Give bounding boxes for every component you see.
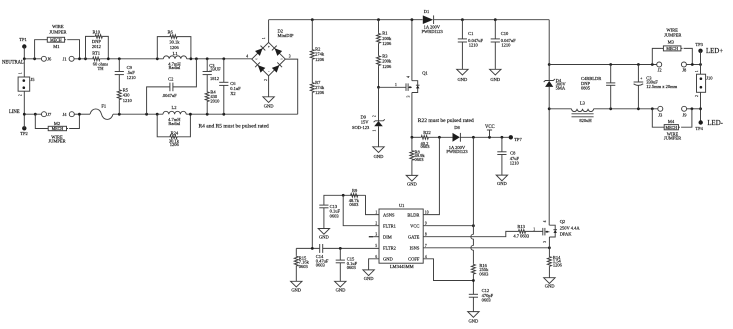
wire LINE rail left segment: [24, 113, 41, 115]
thermistor RT1 60 ohms TH: [92, 51, 108, 72]
svg-text:200k: 200k: [382, 36, 392, 41]
wire R9 to ASNS pin 1: [366, 195, 380, 214]
connector J9: [682, 106, 688, 117]
svg-text:430: 430: [123, 93, 131, 98]
ground below bridge: [263, 97, 274, 109]
svg-text:8: 8: [425, 233, 427, 237]
bridge diode top-left: [255, 46, 265, 56]
svg-text:J1: J1: [63, 56, 67, 61]
svg-text:1206: 1206: [170, 142, 180, 147]
svg-text:9: 9: [425, 222, 427, 226]
resistor R5 430 1210: [117, 88, 132, 115]
connector J5: [18, 59, 35, 114]
capacitor C12 470pF 0603: [469, 288, 494, 311]
svg-text:2: 2: [372, 115, 376, 117]
resistor R13 4.7 0603: [513, 224, 535, 239]
fuse F1: [90, 104, 113, 120]
svg-text:J2: J2: [658, 68, 662, 73]
ground below C10: [490, 69, 501, 82]
svg-text:SOD-123: SOD-123: [352, 125, 370, 130]
svg-text:TP1: TP1: [19, 37, 27, 42]
wire R3 to Q1 gate node: [378, 66, 380, 87]
svg-text:1: 1: [372, 129, 376, 131]
svg-text:C10: C10: [501, 31, 509, 36]
svg-text:1: 1: [262, 37, 266, 39]
svg-text:DIM: DIM: [383, 234, 392, 239]
wire gate node to Q1: [379, 86, 407, 88]
svg-text:FLTR2: FLTR2: [383, 246, 396, 251]
svg-text:M3: M3: [668, 40, 675, 45]
svg-text:GND: GND: [291, 288, 301, 293]
svg-text:TP7: TP7: [514, 137, 522, 142]
svg-text:WIRE: WIRE: [52, 24, 64, 29]
wire LED+ rail: [549, 64, 657, 66]
svg-text:820uH: 820uH: [579, 118, 592, 123]
wire bridge pin2 to ground: [268, 76, 270, 97]
wire GATE pin 8 to R13: [423, 231, 518, 236]
connector J10: [695, 70, 713, 97]
svg-text:Q2: Q2: [560, 219, 566, 224]
wire LINE rail to TP2: [23, 114, 25, 128]
svg-text:TP4: TP4: [695, 126, 703, 131]
svg-text:2: 2: [375, 222, 377, 226]
capacitor C6 0.1uF X2: [219, 59, 241, 114]
capacitor C9 .5uF 1210: [115, 59, 137, 90]
wire rail RT1 to L1 section: [100, 58, 163, 60]
svg-text:4: 4: [543, 220, 547, 222]
svg-text:6: 6: [375, 255, 377, 259]
svg-text:2: 2: [18, 94, 22, 96]
svg-text:0603: 0603: [415, 157, 425, 162]
svg-text:+: +: [640, 77, 642, 81]
test point TP3 / LED+: [695, 42, 723, 55]
wire J4 to fuse: [74, 113, 90, 115]
wire FLTR2 net: [296, 247, 319, 249]
svg-text:NEUTRAL: NEUTRAL: [2, 60, 24, 65]
svg-text:0603: 0603: [347, 265, 357, 270]
wire J10 to TP4: [700, 92, 702, 122]
wire jumper M2 MECH: [35, 114, 79, 143]
capacitor C3 330uF electrolytic: [634, 65, 678, 109]
svg-text:R22 must be pulsed rated: R22 must be pulsed rated: [418, 118, 474, 124]
svg-text:0603: 0603: [349, 202, 359, 207]
capacitor C3 .33UF 1812: [203, 59, 222, 92]
wire Q2 source down to R14: [548, 237, 550, 256]
capacitor C8 47uF 1210: [497, 137, 519, 175]
svg-text:10: 10: [425, 211, 429, 215]
svg-text:X2: X2: [230, 91, 236, 96]
svg-text:DPAK: DPAK: [560, 232, 573, 237]
svg-text:M4: M4: [668, 119, 675, 124]
connector J6: [41, 56, 52, 61]
svg-text:1210: 1210: [501, 43, 511, 48]
connector J8: [681, 62, 687, 73]
wire rail J1 to RT1: [74, 58, 92, 60]
svg-text:GND: GND: [497, 181, 507, 186]
svg-text:2012: 2012: [92, 44, 101, 49]
svg-text:C2: C2: [168, 77, 173, 82]
wire VCC vertical down to R16 with hops: [471, 137, 474, 263]
wire R13 to Q2 gate: [526, 230, 543, 232]
svg-text:1: 1: [533, 227, 535, 231]
svg-text:1206: 1206: [382, 64, 392, 69]
wire ISNS pin 7 to Q2 source: [423, 247, 549, 249]
svg-text:L1: L1: [173, 51, 178, 56]
svg-text:0603: 0603: [299, 264, 309, 269]
svg-text:+: +: [268, 45, 270, 49]
diode D1 1A 200V PWRDI123: [422, 9, 444, 34]
svg-text:2: 2: [695, 95, 699, 97]
inductor L1 4.7mH Radial: [163, 51, 186, 70]
wire LED- rail left: [549, 108, 571, 110]
svg-text:1812: 1812: [210, 76, 219, 81]
ground below U1 pin 6: [363, 270, 374, 281]
bridge diode bottom-right: [272, 62, 282, 72]
svg-text:MECH: MECH: [666, 125, 678, 130]
svg-text:MiniDIP: MiniDIP: [278, 33, 295, 38]
svg-text:1206: 1206: [170, 45, 180, 50]
svg-text:15V: 15V: [361, 120, 370, 125]
svg-text:274k: 274k: [315, 52, 325, 57]
svg-text:PWRDI123: PWRDI123: [422, 29, 444, 34]
svg-text:4: 4: [406, 76, 410, 78]
capacitor C15 0.1uF 0603: [336, 248, 358, 281]
test point TP2: [20, 126, 28, 136]
svg-text:5MA: 5MA: [556, 85, 566, 90]
resistor R1 200k 1206: [377, 20, 392, 46]
svg-text:274k: 274k: [315, 85, 325, 90]
svg-text:2010: 2010: [210, 98, 220, 103]
svg-text:J10: J10: [706, 75, 713, 80]
resistor R15 7.16k 0603: [294, 248, 309, 281]
diode D8 1A 200V PWRDI123: [446, 125, 468, 154]
svg-text:R6: R6: [167, 29, 173, 34]
svg-text:LINE: LINE: [9, 110, 20, 115]
svg-text:4.7 0603: 4.7 0603: [513, 233, 530, 238]
wire bridge output to top rail: [268, 20, 270, 43]
svg-text:Q1: Q1: [422, 71, 428, 76]
wire VCC rail left (Q1 source node): [412, 136, 421, 138]
svg-text:TP2: TP2: [20, 131, 28, 136]
capacitor C13 0.1uF 0603: [319, 204, 340, 229]
transistor Q1: [406, 20, 428, 138]
svg-text:1206: 1206: [382, 41, 392, 46]
test point TP4 / LED-: [695, 120, 723, 131]
svg-text:GND: GND: [383, 257, 393, 262]
svg-text:R10: R10: [93, 30, 101, 35]
svg-text:MECH: MECH: [52, 126, 64, 131]
wire COFF pin 4 to C12 node: [423, 259, 473, 281]
test point TP1: [19, 37, 27, 49]
svg-text:5: 5: [375, 244, 377, 248]
inductor L2 4.7mH Radial: [163, 105, 186, 126]
wire R22 to D8: [429, 136, 453, 138]
svg-text:0603: 0603: [482, 298, 492, 303]
ground below C13: [318, 229, 329, 240]
power symbol VCC: [485, 125, 495, 137]
capacitor C2 .0047uF (line to neutral): [147, 59, 197, 114]
resistor R16 255k 0603: [471, 263, 489, 294]
svg-text:0603: 0603: [421, 144, 431, 149]
resistor R22 40.2 0603: [421, 130, 431, 149]
svg-text:7: 7: [425, 244, 427, 248]
svg-text:1: 1: [695, 70, 699, 72]
svg-text:0805: 0805: [581, 86, 591, 91]
svg-text:GND: GND: [490, 77, 500, 82]
svg-text:M1: M1: [53, 44, 59, 49]
wire LINE rail fuse to L2: [113, 113, 163, 115]
svg-text:~: ~: [281, 58, 283, 62]
wire top rectified rail: [269, 19, 423, 21]
resistor R9 48.7k 0603: [349, 188, 360, 207]
wire J8 to TP3 column: [686, 64, 700, 66]
ground below C12: [468, 312, 479, 324]
ground below D9: [373, 147, 384, 159]
svg-text:VCC: VCC: [485, 125, 495, 130]
connector J4: [63, 112, 75, 117]
svg-text:12.5mm x 20mm: 12.5mm x 20mm: [646, 84, 677, 89]
capacitor C14 0.47uF 0603 (series): [316, 244, 329, 268]
svg-text:F1: F1: [101, 104, 106, 109]
svg-text:GND: GND: [407, 181, 417, 186]
svg-text:GND: GND: [374, 154, 384, 159]
svg-text:COFF: COFF: [408, 257, 420, 262]
svg-text:R13: R13: [517, 224, 525, 229]
transistor Q2 250V 4.4A DPAK: [543, 219, 581, 243]
svg-text:4: 4: [425, 255, 427, 259]
svg-text:1: 1: [375, 211, 377, 215]
svg-text:MECH: MECH: [666, 46, 678, 51]
svg-text:1210: 1210: [469, 43, 479, 48]
wire BLDR pin 10 up to VCC rail: [423, 137, 439, 214]
wire GND pin 6 to ground: [369, 259, 379, 270]
svg-text:1210: 1210: [127, 75, 137, 80]
svg-text:U1: U1: [399, 203, 405, 208]
svg-text:GND: GND: [458, 77, 468, 82]
ground below R14: [544, 278, 556, 289]
resistor R14 1.54 1206: [547, 255, 562, 278]
svg-text:TP3: TP3: [695, 42, 703, 47]
connector J3: [658, 106, 663, 117]
svg-text:D8: D8: [454, 125, 460, 130]
svg-text:L2: L2: [172, 105, 177, 110]
wire jumper M3 MECH: [652, 28, 692, 65]
svg-text:R4 and R5 must be pulsed rated: R4 and R5 must be pulsed rated: [199, 123, 270, 129]
svg-text:MECH: MECH: [50, 37, 62, 42]
svg-text:1210: 1210: [510, 161, 520, 166]
svg-text:1: 1: [395, 83, 397, 87]
svg-text:0603: 0603: [479, 271, 489, 276]
resistor R8 49.9k 0603: [410, 137, 425, 175]
wire jumper M4 MECH: [652, 109, 692, 141]
wire NEUTRAL rail left segment: [24, 58, 41, 60]
ground below R8: [406, 175, 417, 186]
svg-text:BLDR: BLDR: [407, 212, 419, 217]
svg-text:JUMPER: JUMPER: [664, 135, 681, 140]
ground below C8: [496, 175, 507, 186]
resistor R24 30.1k 1206 (parallel with L2): [157, 114, 190, 147]
svg-text:LM3445MM: LM3445MM: [390, 264, 414, 269]
svg-text:GND: GND: [264, 103, 274, 108]
svg-text:LED-: LED-: [707, 120, 723, 127]
svg-text:1206: 1206: [553, 262, 563, 267]
pin stub DIM: [369, 236, 373, 238]
svg-text:L3: L3: [580, 101, 586, 106]
connector J2: [657, 62, 662, 73]
bridge diode bottom-left: [255, 62, 265, 72]
resistor R2 274k 1206: [310, 20, 325, 62]
wire VCC pin 9: [423, 225, 473, 227]
svg-text:RT1: RT1: [92, 51, 100, 56]
wire node to FLTR1 pin 2: [343, 195, 379, 225]
wire top rail right of D1: [434, 19, 550, 21]
svg-text:1206: 1206: [315, 57, 325, 62]
svg-text:30.1k: 30.1k: [169, 40, 180, 45]
svg-text:PWRDI123: PWRDI123: [446, 149, 468, 154]
svg-text:GND: GND: [364, 276, 374, 281]
svg-text:VCC: VCC: [410, 223, 419, 228]
wire divider node to C13/R9 net: [324, 195, 366, 205]
connector J1: [63, 56, 75, 61]
svg-text:Radial: Radial: [168, 121, 180, 126]
test point TP7: [509, 135, 523, 142]
wire NEUTRAL rail L1 to bridge: [187, 58, 252, 60]
svg-text:2: 2: [264, 79, 268, 81]
svg-text:1206: 1206: [315, 90, 325, 95]
svg-text:C1: C1: [468, 31, 473, 36]
ground below R15: [291, 281, 302, 292]
ground below C1: [457, 69, 468, 82]
svg-text:GND: GND: [469, 318, 479, 323]
svg-text:1: 1: [18, 72, 22, 74]
svg-text:FLTR1: FLTR1: [383, 223, 396, 228]
wire bridge pin3 to LINE rail: [285, 59, 297, 114]
resistor R7 274k 1206: [310, 60, 325, 95]
svg-text:JUMPER: JUMPER: [49, 30, 66, 35]
inductor L3 820uH: [572, 101, 594, 124]
svg-text:GND: GND: [319, 235, 329, 240]
wire LED- rail right: [594, 108, 658, 110]
wire J9 to TP4 column: [687, 108, 701, 110]
svg-text:LED+: LED+: [706, 48, 723, 55]
wire jumper M1 MECH: [35, 24, 80, 59]
svg-text:JUMPER: JUMPER: [48, 139, 65, 144]
svg-text:0603: 0603: [316, 263, 326, 268]
svg-text:ASNS: ASNS: [383, 212, 395, 217]
svg-text:3: 3: [406, 95, 410, 97]
svg-text:Radial: Radial: [169, 65, 181, 70]
svg-text:~: ~: [255, 58, 257, 62]
svg-text:1210: 1210: [123, 98, 133, 103]
resistor R6 30.1k 1206 (parallel with L1): [157, 29, 191, 58]
wire TP3 to J10: [700, 51, 702, 74]
svg-text:GND: GND: [336, 288, 346, 293]
svg-text:R24: R24: [171, 130, 179, 135]
IC U1 LM3445MM: [375, 203, 428, 269]
svg-text:.0047uF: .0047uF: [162, 93, 177, 98]
wire TP1 to NEUTRAL rail: [23, 47, 25, 59]
wire R7 down to FLTR2 node: [311, 93, 313, 249]
capacitor C10 0.047uF 1210: [491, 20, 516, 70]
svg-text:TH: TH: [98, 66, 105, 71]
svg-text:3: 3: [375, 233, 377, 237]
ground below C15: [335, 281, 347, 292]
resistor R4 430 2010: [205, 90, 220, 115]
svg-text:200k: 200k: [382, 59, 392, 64]
wire VCC rail D8 to TP7: [460, 136, 508, 138]
svg-text:ISNS: ISNS: [410, 246, 420, 251]
zener diode D4 300V 5MA: [544, 78, 567, 90]
wire top rail corner down to Q2 drain: [548, 20, 550, 81]
svg-text:250V 4.4A: 250V 4.4A: [560, 225, 581, 230]
svg-text:D1: D1: [424, 9, 430, 14]
svg-text:4: 4: [246, 55, 248, 59]
zener diode D9 15V SOD-123: [352, 87, 385, 147]
svg-text:R22: R22: [423, 130, 431, 135]
capacitor C4RBLDR DNP 0805: [581, 65, 615, 109]
bridge diode top-right: [272, 46, 282, 56]
resistor R10 DNP 2012 (parallel with RT1): [86, 30, 109, 59]
capacitor C1 0.047uF 1210: [458, 20, 484, 70]
svg-text:0603: 0603: [330, 213, 340, 218]
svg-text:GATE: GATE: [408, 234, 420, 239]
svg-text:.33UF: .33UF: [209, 67, 221, 72]
svg-text:3: 3: [543, 241, 547, 243]
svg-text:M2: M2: [54, 121, 60, 126]
svg-text:R9: R9: [352, 188, 358, 193]
wire LINE rail L2 to bridge corner: [186, 113, 298, 115]
svg-text:3: 3: [289, 55, 291, 59]
connector J7: [42, 112, 53, 117]
svg-text:GND: GND: [545, 284, 555, 289]
bridge rectifier D2 MiniDIP: [246, 28, 294, 80]
svg-text:JUMPER: JUMPER: [664, 33, 681, 38]
resistor R3 200k 1206: [377, 44, 392, 69]
